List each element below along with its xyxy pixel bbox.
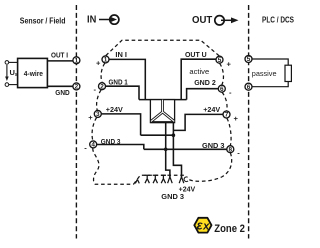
wire GND 2 xyxy=(187,89,219,100)
terminal 1 xyxy=(102,56,109,64)
svg-text:4: 4 xyxy=(91,142,95,149)
terminal 4 xyxy=(90,141,97,149)
ground symbol 2 xyxy=(145,175,150,183)
device outline dashed top xyxy=(106,40,220,56)
wire box to field terminal 1 xyxy=(47,60,73,62)
svg-text:5: 5 xyxy=(247,56,251,63)
field terminal circle 1 xyxy=(73,57,80,65)
PLC terminal 6 xyxy=(245,83,252,91)
svg-text:+: + xyxy=(227,59,232,68)
wire IN I xyxy=(109,59,145,99)
ground symbol 4 xyxy=(161,175,166,183)
ground symbol 1 lambda legs xyxy=(135,179,139,183)
svg-text:active: active xyxy=(189,67,209,76)
wire B box bottom right to +24V ground symbol xyxy=(173,123,181,177)
svg-text:GND: GND xyxy=(55,88,69,97)
wire Us lower to box xyxy=(9,84,18,86)
wire GND 3 bus xyxy=(144,148,227,150)
ground symbol 6 on wire B xyxy=(179,177,184,183)
svg-text:OUT U: OUT U xyxy=(185,50,207,59)
svg-text:4-wire: 4-wire xyxy=(24,69,43,78)
voltage source Us terminal lower xyxy=(5,83,9,87)
wire PLC loop xyxy=(252,59,288,87)
svg-text:2: 2 xyxy=(100,83,104,90)
zone boundary line PLC/DCS xyxy=(248,5,250,239)
svg-text:OUT I: OUT I xyxy=(51,51,68,60)
svg-text:+: + xyxy=(96,58,101,67)
svg-text:PLC / DCS: PLC / DCS xyxy=(262,16,294,25)
svg-text:Sensor / Field: Sensor / Field xyxy=(20,17,66,26)
PLC terminal 5 xyxy=(245,56,252,64)
svg-text:5: 5 xyxy=(218,57,222,64)
terminal 5 xyxy=(216,56,223,64)
svg-text:+24V: +24V xyxy=(106,105,123,114)
svg-text:OUT: OUT xyxy=(192,15,213,26)
wire top bus bar xyxy=(139,99,187,101)
isolation barrier box U1 xyxy=(150,100,174,123)
device outline dashed bottom lambda diagonal xyxy=(134,175,186,184)
svg-text:Zone 2: Zone 2 xyxy=(214,223,245,235)
isolation barrier bottom thick edge xyxy=(150,121,174,123)
isolation barrier Y divider xyxy=(151,100,174,122)
svg-text:8: 8 xyxy=(229,146,233,153)
svg-text:x: x xyxy=(202,220,210,232)
device outline dashed left column xyxy=(92,63,133,184)
wire GND 3 left xyxy=(97,145,144,150)
zone boundary line Sensor/Field xyxy=(75,5,77,239)
svg-text:1: 1 xyxy=(75,57,79,64)
terminal 2 xyxy=(99,83,106,91)
svg-text:-: - xyxy=(84,144,87,153)
svg-text:+: + xyxy=(88,113,93,122)
svg-text:GND 3: GND 3 xyxy=(202,141,225,150)
svg-text:-: - xyxy=(94,85,97,94)
wire +24V right from terminal 7 xyxy=(173,114,223,130)
voltage source Us terminal upper xyxy=(5,61,9,65)
svg-text:passive: passive xyxy=(252,69,277,78)
wire A box bottom to GND3 ground symbol xyxy=(166,123,170,177)
wire OUT U xyxy=(181,59,216,99)
svg-text:6: 6 xyxy=(220,86,224,93)
svg-text:IN I: IN I xyxy=(115,50,127,59)
svg-text:6: 6 xyxy=(247,84,251,91)
IN arrow icon xyxy=(99,15,119,24)
svg-text:7: 7 xyxy=(225,112,229,119)
svg-text:+: + xyxy=(234,114,239,123)
terminal 8 xyxy=(227,146,234,154)
OUT arrow icon xyxy=(215,16,239,25)
device outline hook c xyxy=(184,177,188,182)
svg-text:GND 1: GND 1 xyxy=(109,78,128,87)
device outline dashed right column xyxy=(187,63,231,181)
svg-text:IN: IN xyxy=(87,14,96,25)
resistor load xyxy=(285,65,291,81)
svg-text:GND 3: GND 3 xyxy=(161,192,184,201)
wire GND 1 xyxy=(105,86,139,99)
terminal 3 xyxy=(94,110,101,118)
svg-text:-: - xyxy=(237,149,240,158)
ground symbol 5 on wire A xyxy=(168,177,173,183)
voltage source Us arrow xyxy=(5,65,9,81)
svg-text:GND 2: GND 2 xyxy=(194,78,216,87)
svg-text:Us: Us xyxy=(10,68,18,78)
svg-text:2: 2 xyxy=(75,84,79,91)
4-wire transmitter box xyxy=(18,58,48,87)
wire Us upper to box xyxy=(9,61,18,63)
Ex hexagon logo xyxy=(194,218,211,233)
svg-text:-: - xyxy=(229,88,232,97)
junction dot GND 3 xyxy=(164,148,168,152)
wire +24V bus under box xyxy=(141,134,174,136)
svg-text:GND 3: GND 3 xyxy=(101,137,121,146)
wire box to field terminal 2 xyxy=(47,85,73,87)
junction dot +24V xyxy=(172,133,176,137)
terminal 6 xyxy=(218,85,225,93)
field terminal circle 2 xyxy=(73,83,80,91)
svg-text:3: 3 xyxy=(96,111,100,118)
wire +24V left xyxy=(101,114,140,135)
svg-text:+24V: +24V xyxy=(203,105,220,114)
svg-text:1: 1 xyxy=(104,57,108,64)
terminal 7 xyxy=(223,111,230,119)
ground symbol 3 xyxy=(153,175,158,183)
